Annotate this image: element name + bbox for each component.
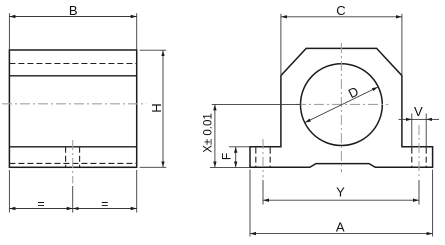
dimension C extension lines bbox=[280, 14, 282, 76]
dimension B extension lines bbox=[8, 13, 10, 50]
svg-text:=: = bbox=[37, 197, 44, 211]
equal spacing extension lines bbox=[8, 170, 10, 213]
centerline left foot hole bbox=[262, 139, 264, 178]
hidden recess line bbox=[9, 162, 136, 164]
hidden left foot hole edges bbox=[255, 148, 257, 167]
horizontal centerline side view bbox=[2, 103, 147, 105]
dimension C line bbox=[281, 16, 402, 18]
dimension B line bbox=[9, 16, 136, 18]
svg-text:A: A bbox=[336, 219, 345, 234]
dimension H extension lines bbox=[140, 49, 167, 51]
hidden mounting hole left edge bbox=[65, 147, 67, 168]
dimension A extension lines bbox=[249, 170, 251, 237]
dimension H line bbox=[162, 50, 164, 167]
front view outline bbox=[250, 48, 433, 167]
svg-text:H: H bbox=[149, 103, 164, 112]
chamfer edge line bbox=[9, 75, 136, 77]
vertical centerline mounting hole side view bbox=[72, 140, 74, 184]
hidden mounting hole right edge bbox=[79, 147, 81, 168]
foot step line bbox=[9, 146, 136, 148]
dimension V extension lines bbox=[411, 114, 413, 147]
vertical centerline front view bbox=[340, 43, 342, 173]
svg-text:B: B bbox=[69, 3, 78, 18]
svg-text:Y: Y bbox=[336, 185, 345, 200]
dimension X line bbox=[214, 104, 216, 167]
hidden bore top line bbox=[9, 63, 136, 65]
centerline right foot hole bbox=[418, 125, 420, 178]
horizontal centerline bore bbox=[296, 103, 389, 105]
svg-text:D: D bbox=[346, 84, 361, 102]
dimension D diameter line bbox=[305, 87, 378, 123]
dimension X extension lines bbox=[212, 103, 301, 105]
side view body rectangle bbox=[9, 50, 136, 167]
dimension F extension line bbox=[229, 146, 250, 148]
dimension F line bbox=[235, 147, 237, 168]
hidden right foot hole edges bbox=[411, 148, 413, 167]
dimension Y extension lines bbox=[262, 180, 264, 205]
svg-text:X± 0.01: X± 0.01 bbox=[203, 113, 215, 153]
svg-text:V: V bbox=[414, 104, 423, 119]
svg-text:=: = bbox=[101, 197, 108, 211]
svg-text:C: C bbox=[336, 3, 345, 18]
equal spacing dimension line right half bbox=[73, 208, 137, 210]
equal spacing dimension line left half bbox=[9, 208, 72, 210]
dimension V line with outside arrows bbox=[399, 118, 412, 120]
bore circle bbox=[301, 64, 383, 146]
svg-text:F: F bbox=[219, 153, 233, 160]
dimension A line bbox=[250, 233, 433, 235]
dimension Y line bbox=[263, 199, 419, 201]
